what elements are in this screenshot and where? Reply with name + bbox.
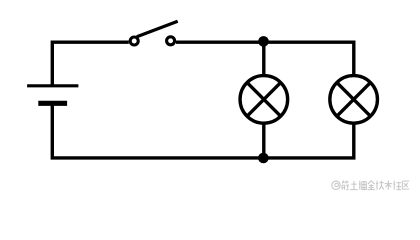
- wire: top-left run from switch pivot to left corner, down to battery +: [52, 42, 129, 86]
- node: bottom junction: [258, 153, 269, 164]
- battery B1 negative plate (short thick): [38, 101, 67, 106]
- wire: battery - down, bottom run to right corner, up to lamp L2 bottom: [52, 103, 354, 158]
- wire: lamp L1 bottom to bottom junction: [262, 123, 265, 158]
- lamp L1 body: [240, 76, 288, 124]
- battery B1 positive plate (long): [27, 84, 78, 87]
- lamp L1 cross: [247, 83, 280, 116]
- lamp L2 cross: [337, 83, 370, 116]
- lamp L2 body: [330, 76, 378, 124]
- switch S1 lever (open): [137, 21, 178, 37]
- node: top junction: [258, 36, 269, 47]
- watermark "@稀土掘金技术社区": [332, 181, 410, 190]
- wire: branch from top junction down to lamp L1 top: [262, 42, 265, 76]
- switch S1 fixed contact: [167, 37, 175, 45]
- wire: switch fixed contact to top-right corner, down to lamp L2 top: [176, 42, 354, 74]
- switch S1 pivot contact: [130, 37, 138, 45]
